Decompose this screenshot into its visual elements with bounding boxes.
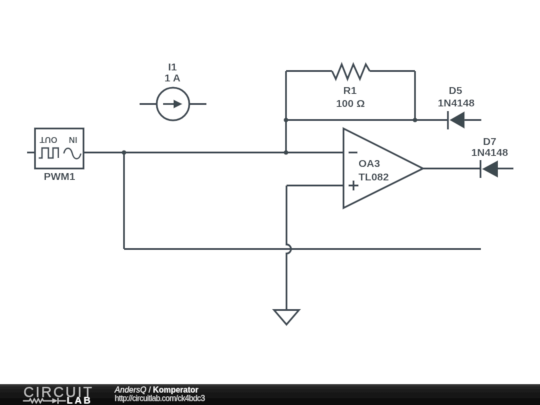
wire: non-inverting input horizontal <box>287 185 344 187</box>
svg-text:1N4148: 1N4148 <box>438 98 475 110</box>
ground symbol <box>274 310 299 325</box>
wire: bottom horizontal rail <box>124 248 481 250</box>
svg-text:OUT: OUT <box>39 135 58 145</box>
wire: vertical from node at x=124 down to bottom rail <box>123 153 125 250</box>
svg-text:100 Ω: 100 Ω <box>336 98 365 110</box>
svg-text:TL082: TL082 <box>359 171 390 183</box>
current source I1 arrowhead <box>174 100 183 109</box>
wire: top feedback right segment <box>370 70 415 72</box>
svg-text:R1: R1 <box>343 85 357 97</box>
current source I1 left stub <box>140 103 157 105</box>
svg-text:OA3: OA3 <box>359 158 381 170</box>
svg-text:PWM1: PWM1 <box>44 171 76 183</box>
resistor R1 zigzag <box>332 64 370 79</box>
wire: after D7 <box>498 168 514 170</box>
svg-text:D7: D7 <box>483 136 497 148</box>
op-amp plus symbol <box>349 181 359 191</box>
svg-text:1 A: 1 A <box>165 73 181 85</box>
wire: top feedback left segment <box>286 70 332 72</box>
diode D5 triangle <box>450 111 465 128</box>
wire: mid rail y=120 to D5 <box>286 119 448 121</box>
diode D7 triangle <box>482 160 498 177</box>
op-amp OA3 triangle <box>344 129 424 209</box>
CircuitLab logo diode triangle <box>52 398 57 403</box>
wire: after D5 <box>465 119 482 121</box>
current source I1 right stub <box>189 103 206 105</box>
PWM1 symbol square wave glyph <box>39 148 59 158</box>
current source I1 circle <box>157 88 190 121</box>
svg-text:I1: I1 <box>168 61 177 73</box>
svg-text:LAB: LAB <box>67 396 93 405</box>
CircuitLab logo resistor squiggle <box>23 398 66 404</box>
junction node at (286,120) <box>284 118 289 123</box>
junction node at (286,152.5) <box>284 150 289 155</box>
wire: feedback right vertical <box>414 71 416 120</box>
svg-text:D5: D5 <box>449 85 463 97</box>
svg-text:1N4148: 1N4148 <box>471 147 508 159</box>
wire: PWM1 output to op-amp inverting input <box>84 152 344 154</box>
current source I1 arrow line <box>163 103 175 105</box>
wire: vertical to ground with hop over bottom rail <box>287 186 292 311</box>
junction node at (124,152.5) <box>122 150 127 155</box>
PWM1 symbol sine wave glyph <box>64 148 81 159</box>
diode D7 cathode bar <box>480 160 482 178</box>
wire: feedback left vertical (x=286) from top rail to inverting input <box>285 71 287 153</box>
svg-text:IN: IN <box>69 135 77 145</box>
op-amp minus symbol <box>349 152 358 154</box>
junction node at (415,120) <box>413 118 418 123</box>
wire: op-amp output to D7 <box>423 168 481 170</box>
footer black bar <box>0 384 540 405</box>
diode D5 cathode bar <box>447 111 449 130</box>
PWM source PWM1 box <box>35 129 84 169</box>
svg-text:http://circuitlab.com/ck4bdc3: http://circuitlab.com/ck4bdc3 <box>115 394 206 403</box>
wire: PWM1 left stub <box>27 152 35 154</box>
